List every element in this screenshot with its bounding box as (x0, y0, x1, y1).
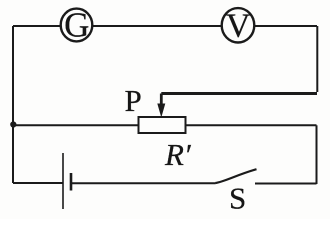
svg-text:V: V (226, 8, 251, 45)
svg-text:R′: R′ (164, 137, 192, 172)
svg-text:S: S (229, 181, 246, 216)
svg-text:G: G (64, 6, 89, 45)
svg-text:P: P (125, 83, 142, 118)
